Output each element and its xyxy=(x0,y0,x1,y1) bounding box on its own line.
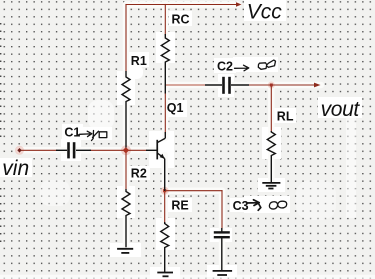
ground under RL xyxy=(262,183,280,189)
node emitter junction dot xyxy=(163,189,166,192)
capacitor C2 lead right xyxy=(231,84,249,86)
transistor Q1 emitter lead xyxy=(164,159,166,191)
wire emitter node to C3 branch xyxy=(165,190,222,192)
annotation doodle at C3 xyxy=(269,202,277,209)
annotation box at C1 xyxy=(99,132,107,138)
annotation arrow at C2 xyxy=(235,65,249,71)
svg-text:RL: RL xyxy=(277,110,294,124)
svg-text:C2: C2 xyxy=(217,60,233,74)
capacitor C1 lead right xyxy=(76,149,91,151)
svg-text:Vcc: Vcc xyxy=(247,0,283,23)
svg-text:vin: vin xyxy=(2,157,29,180)
transistor Q1 collector diagonal xyxy=(158,138,166,142)
svg-text:Q1: Q1 xyxy=(167,101,184,115)
node vout junction dot xyxy=(270,84,273,87)
wire RC branch top xyxy=(164,5,166,35)
ground under R2 xyxy=(117,249,133,253)
transistor Q1 base bar xyxy=(156,140,158,160)
resistor R2 xyxy=(122,189,130,247)
svg-text:R1: R1 xyxy=(131,54,147,68)
svg-text:C3: C3 xyxy=(233,199,249,213)
capacitor C2 lead left xyxy=(205,84,222,86)
vin wire start diamond xyxy=(17,148,21,153)
white JPEG-halo under wires xyxy=(19,5,321,273)
ground under RE xyxy=(157,273,173,277)
wire emitter node down to RE xyxy=(164,191,166,222)
wire RC bottom to collector node xyxy=(164,93,166,133)
svg-text:R2: R2 xyxy=(131,166,147,180)
wire C1 to node B xyxy=(90,149,126,151)
capacitor C3 lead bottom xyxy=(221,238,223,270)
capacitor C1 plates xyxy=(67,142,70,158)
transistor Q1 emitter diagonal xyxy=(158,153,165,158)
annotation arrow at C3 xyxy=(247,200,261,211)
capacitor C1 lead left xyxy=(56,149,67,151)
arrow vout end xyxy=(314,83,321,88)
annotation arrow at C1 xyxy=(78,131,92,136)
wire C2 to vout xyxy=(248,84,318,86)
ground under C3 xyxy=(213,271,233,275)
wire node B to Q1 base xyxy=(126,149,146,151)
transistor Q1 emitter arrowhead xyxy=(160,154,165,159)
wire node B down to R2 xyxy=(125,150,127,189)
transistor Q1 collector lead xyxy=(164,132,166,138)
svg-text:C1: C1 xyxy=(64,125,80,139)
wire collector node to C2 xyxy=(165,84,206,86)
left edge dark dots column xyxy=(0,23,1,242)
capacitor C3 plates xyxy=(214,231,230,233)
wire R1 branch top xyxy=(125,5,127,72)
wire vin to C1 xyxy=(20,149,57,151)
capacitor C2 plates xyxy=(222,77,225,94)
svg-text:RE: RE xyxy=(171,199,188,213)
arrow Vcc rail end xyxy=(236,2,242,7)
transistor Q1 base lead xyxy=(146,149,157,151)
resistor R1 xyxy=(122,71,130,148)
wire down to C3 xyxy=(221,191,223,229)
resistor RE xyxy=(161,222,169,272)
resistor RC xyxy=(161,34,169,94)
wire Vcc rail top xyxy=(126,4,238,6)
resistor RL xyxy=(267,131,275,182)
svg-text:vout: vout xyxy=(321,98,361,121)
node B junction dot xyxy=(123,147,129,153)
pink glow at junctions xyxy=(121,145,131,155)
annotation doodle at C2 xyxy=(258,63,267,70)
wire vout node down to RL xyxy=(270,85,272,131)
svg-text:RC: RC xyxy=(172,12,190,26)
capacitor C3 lead top xyxy=(221,228,223,232)
